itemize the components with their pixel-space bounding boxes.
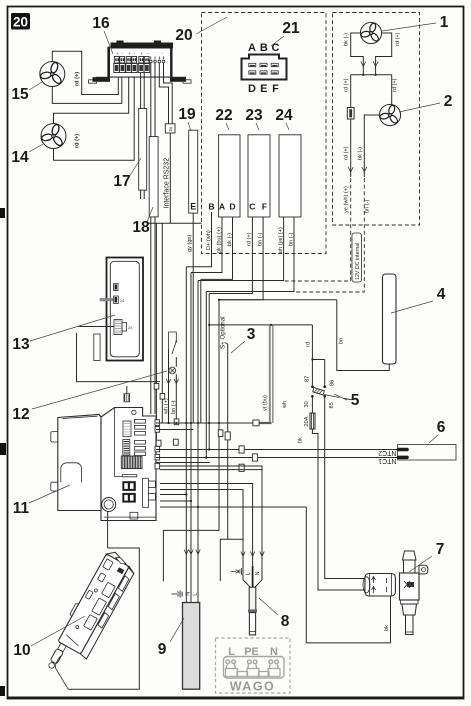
arrowhead bk lower <box>362 167 367 172</box>
unit11 dotted connector <box>123 421 131 437</box>
fan 2 <box>379 104 400 125</box>
enclosure corner lines <box>77 333 161 382</box>
power unit 11 panel body <box>101 408 156 521</box>
svg-text:20: 20 <box>13 15 28 30</box>
wire 85 down to valve feed A <box>325 396 365 578</box>
wire bk from fuse to valve feed B <box>312 429 365 590</box>
dashed box 12V fans (items 1,2) <box>333 13 420 226</box>
svg-text:24: 24 <box>120 299 124 303</box>
panel 13 connector c <box>114 320 132 335</box>
wire 12 bn down <box>175 357 177 423</box>
wire fan1 bk <box>351 33 364 75</box>
wire buzzer down <box>107 512 109 549</box>
wire to plug L <box>160 484 253 567</box>
svg-text:13: 13 <box>12 336 30 353</box>
svg-text:vt (bu): vt (bu) <box>263 395 269 411</box>
bus line H2 <box>156 429 193 431</box>
svg-text:rd (+): rd (+) <box>392 78 398 92</box>
svg-text:14: 14 <box>11 149 29 166</box>
heater 9 wires with arrows <box>184 550 200 603</box>
cable sheath 22 <box>208 135 240 217</box>
svg-text:ye (wh) (+): ye (wh) (+) <box>344 186 350 213</box>
dashed wire ye(wh)+ internal <box>284 178 351 281</box>
svg-text:wh (+): wh (+) <box>163 398 169 415</box>
svg-text:rd (+): rd (+) <box>395 32 401 46</box>
cable sheath 18 <box>149 137 158 217</box>
wire S+ optional <box>220 344 243 581</box>
wire mains N1 stub <box>160 500 191 502</box>
unit11 fingers mid <box>135 441 146 456</box>
svg-text:bk (-): bk (-) <box>344 33 350 46</box>
wire unit16 pin1 down <box>150 63 152 414</box>
wires into plug 8 arrows <box>241 552 264 557</box>
wire RS232 a <box>159 63 168 124</box>
wire fan15 red <box>52 51 118 94</box>
connector 21 <box>242 42 287 95</box>
bus line H5 <box>156 462 210 464</box>
svg-text:20A: 20A <box>304 416 310 426</box>
svg-text:22: 22 <box>215 107 232 124</box>
wire C rd(+) <box>209 212 252 294</box>
svg-text:+: + <box>141 51 144 56</box>
wire RS232 horizontal <box>148 222 202 224</box>
wire v bn24 down <box>205 292 207 458</box>
NTC sensor 6 <box>397 445 456 461</box>
wire to plug PE <box>160 490 243 567</box>
svg-text:NTC1: NTC1 <box>378 457 396 464</box>
svg-text:D: D <box>229 202 235 212</box>
wire fan2 bk <box>364 115 379 177</box>
svg-text:11: 11 <box>13 500 30 517</box>
wire 30 to fuse <box>311 396 313 413</box>
svg-text:rd (+): rd (+) <box>344 78 350 92</box>
unit11 bottom tab <box>130 512 138 519</box>
svg-text:9: 9 <box>158 641 167 658</box>
wire 24 bn <box>206 212 294 292</box>
wire item4 bn <box>337 300 390 371</box>
inline connector mid a <box>174 419 179 425</box>
dashed box around connector/harness (item 20) <box>202 13 327 254</box>
ground arrow item 8 <box>231 568 241 575</box>
svg-text:C: C <box>272 42 280 54</box>
wire fan14 black <box>54 76 135 161</box>
inline connector on S+ wire <box>225 432 230 440</box>
relay 5 pin 87 wire <box>311 360 313 386</box>
svg-text:bk: bk <box>384 625 390 631</box>
fan 14 <box>41 124 66 149</box>
wire v1 from rs232 area <box>155 223 157 449</box>
unit11 top connector <box>124 394 130 402</box>
svg-text:N: N <box>255 571 261 575</box>
wire rd with fuse <box>350 75 352 177</box>
bus line NTC1 <box>156 457 398 459</box>
svg-text:2x: 2x <box>168 126 173 132</box>
wire block3 a down <box>140 73 142 200</box>
svg-text:N: N <box>186 592 192 596</box>
svg-text:S+ Optional: S+ Optional <box>220 316 227 349</box>
arrowhead fan1 left <box>361 62 366 67</box>
wire vt(bu) gray horizontal <box>258 422 272 424</box>
svg-text:8: 8 <box>281 613 290 630</box>
wire RS232 down <box>169 133 171 223</box>
svg-text:bn (-): bn (-) <box>257 232 263 246</box>
WAGO terminal block <box>216 638 291 694</box>
svg-text:B: B <box>208 202 214 212</box>
inline connector on v1 <box>154 384 159 390</box>
wire mains L1 stub <box>160 494 186 496</box>
unit11 dark block b <box>122 493 136 503</box>
svg-text:3: 3 <box>247 326 256 343</box>
svg-text:D: D <box>248 83 256 95</box>
svg-text:pk (bu) (+): pk (bu) (+) <box>216 227 222 253</box>
cable sheath 17 <box>139 109 147 191</box>
cable sheath 19 with E <box>189 130 198 213</box>
wire v bk down <box>200 279 202 423</box>
cable sheath 23 <box>248 135 270 217</box>
inline connector on H1 <box>253 420 259 426</box>
heater element 9 <box>183 603 200 690</box>
wire v bn23 down + hook <box>163 300 219 582</box>
svg-text:21: 21 <box>282 20 300 37</box>
connector 2x <box>165 124 175 133</box>
svg-text:87: 87 <box>304 376 310 382</box>
wire bk return stub <box>160 506 306 508</box>
svg-text:7: 7 <box>436 541 445 558</box>
inline connector on NTC2 line <box>239 446 244 453</box>
svg-text:L: L <box>193 593 199 596</box>
wire fan14 red <box>54 76 129 124</box>
svg-text:wh: wh <box>282 401 288 409</box>
svg-text:F: F <box>272 83 279 95</box>
svg-text:WAGO: WAGO <box>230 680 276 694</box>
relay 5 contact <box>311 386 351 400</box>
gas valve 7 body <box>400 551 428 635</box>
svg-text:bn: bn <box>339 338 345 344</box>
svg-text:C: C <box>249 202 255 212</box>
svg-text:15: 15 <box>11 86 29 103</box>
svg-text:A: A <box>248 42 256 54</box>
svg-text:12: 12 <box>12 406 29 423</box>
svg-text:bn (-): bn (-) <box>171 400 177 414</box>
svg-text:85: 85 <box>329 402 335 408</box>
cable sheath 24 <box>279 135 301 217</box>
control unit 16 body <box>89 41 192 84</box>
svg-text:rd (+): rd (+) <box>247 232 253 246</box>
inline connector on plug N line <box>239 464 244 471</box>
svg-text:19: 19 <box>178 106 196 123</box>
svg-text:NTC2: NTC2 <box>378 449 396 456</box>
unit11 edge stubs <box>155 420 160 469</box>
wire 12 wh down <box>168 349 170 423</box>
wire relay feed <box>312 325 324 360</box>
svg-text:30: 30 <box>304 401 310 407</box>
relay 5 pin 86 wire <box>324 360 326 386</box>
unit11 striped block <box>123 440 130 456</box>
inline connector on v2 <box>160 394 165 400</box>
wire to plug N <box>160 466 262 566</box>
wire v wh24 down <box>197 281 199 603</box>
power unit 11 left box <box>51 415 101 511</box>
svg-text:16: 16 <box>92 15 110 32</box>
fuse 20A <box>310 413 315 429</box>
wire 24 wh(ye) <box>198 212 284 281</box>
fan 15 <box>40 62 65 87</box>
svg-text:+: + <box>116 51 119 56</box>
wire fan2 rd <box>391 75 393 105</box>
edge print marks <box>0 208 5 218</box>
wire into panel connector c <box>79 326 114 328</box>
svg-text:A: A <box>219 202 225 212</box>
svg-text:wh (ye) (+): wh (ye) (+) <box>278 227 284 255</box>
bus line H1 <box>156 422 272 424</box>
inline connector on NTC1 line <box>252 454 257 461</box>
svg-text:bk: bk <box>298 437 304 443</box>
arrowhead rd lower <box>348 167 353 172</box>
wire B D+(wh) <box>186 212 211 267</box>
unit16 block pin dots <box>115 58 148 61</box>
wire colour labels under sheaths <box>206 227 294 255</box>
junction bar fans <box>351 74 392 76</box>
lamp 12 <box>169 367 176 374</box>
unit11 right column connectors <box>143 478 156 507</box>
dashed wire bn- internal <box>294 178 364 292</box>
svg-text:10: 10 <box>13 642 30 659</box>
wire vt(bu) gray pair <box>269 325 271 423</box>
wire A pk(bu) <box>191 212 222 273</box>
svg-text:6: 6 <box>437 419 446 436</box>
wire F bn(-) <box>219 212 263 300</box>
unit16 round pins <box>148 51 165 63</box>
unit16 terminal block 2 <box>126 51 137 73</box>
switch 12 <box>172 341 176 354</box>
connector stubs at bus left <box>156 440 161 446</box>
svg-text:5: 5 <box>351 392 360 409</box>
svg-text:20: 20 <box>175 27 192 44</box>
gas valve 7 coil <box>363 574 395 597</box>
wire v rd down <box>208 294 210 450</box>
switch-lamp 12 bracket <box>169 332 177 349</box>
arrowhead 12 b <box>174 379 178 384</box>
bus line NTC2 <box>156 449 398 451</box>
wire v pk down <box>190 273 192 603</box>
arrowhead fan1 right <box>373 62 378 67</box>
svg-text:rd (+): rd (+) <box>75 72 81 86</box>
svg-text:rd (+): rd (+) <box>75 134 81 148</box>
svg-text:86: 86 <box>330 380 336 386</box>
unit11 buzzer <box>102 498 116 512</box>
svg-text:rd (+): rd (+) <box>344 146 350 160</box>
small blank rect <box>94 334 100 361</box>
panel 13 ribbon stub <box>100 298 114 301</box>
svg-text:bn (-): bn (-) <box>365 199 371 213</box>
svg-text:bn (-): bn (-) <box>288 232 294 246</box>
unit11 hatched block <box>121 456 142 469</box>
svg-text:bk (-): bk (-) <box>357 147 363 160</box>
sensor board 10 <box>42 548 138 682</box>
12V DC internal label box <box>352 233 362 282</box>
panel 13 connector a <box>114 284 119 291</box>
wire into unit11 top connector <box>126 386 128 394</box>
wire valve coil return <box>306 507 390 643</box>
svg-text:E: E <box>260 83 267 95</box>
fuse 12V <box>347 108 354 120</box>
wire D bk(-) <box>201 212 233 279</box>
wire v D+ down to mains plug area <box>185 267 187 602</box>
panel 13 connector b <box>114 296 124 304</box>
wire bn to item4 <box>219 299 337 301</box>
svg-text:Interface RS232: Interface RS232 <box>164 158 171 209</box>
figure number chip 20 <box>11 13 30 30</box>
inline connector mid b <box>218 430 223 437</box>
wire block3 b down <box>143 73 145 200</box>
control panel 13 <box>107 258 144 361</box>
fan 1 <box>360 22 381 43</box>
svg-text:bk (-): bk (-) <box>227 233 233 246</box>
svg-text:23: 23 <box>245 107 263 124</box>
svg-text:B: B <box>260 42 268 54</box>
wire v2 <box>161 223 163 423</box>
svg-text:E: E <box>190 202 196 212</box>
wire RS232 b <box>164 63 173 124</box>
mains plug 8 <box>243 566 262 635</box>
svg-text:gy (gn): gy (gn) <box>187 234 193 252</box>
wire companion line <box>160 469 262 471</box>
unit16 terminal block 1 <box>114 51 125 73</box>
svg-text:17: 17 <box>113 173 130 190</box>
ground arrow item 9 <box>172 590 183 597</box>
probe cable 10 <box>55 656 68 689</box>
wire E gy(gn) down <box>192 213 194 423</box>
unit11 dark block a <box>122 481 136 491</box>
arrowhead 12 a <box>166 379 170 384</box>
svg-text:2: 2 <box>444 93 453 110</box>
wire fan1 rd <box>376 33 392 75</box>
svg-text:rd: rd <box>306 342 312 347</box>
svg-text:D+ (wh): D+ (wh) <box>206 230 212 250</box>
igniter item 4 <box>383 274 397 364</box>
wire unit16 pin2 down <box>154 63 156 414</box>
svg-text:L: L <box>245 572 251 575</box>
svg-text:F: F <box>262 202 267 212</box>
svg-text:1: 1 <box>440 14 449 31</box>
wire fan15 black <box>52 76 122 104</box>
wire rd to relay <box>209 324 312 326</box>
frame around item 10 <box>68 548 139 689</box>
svg-text:24: 24 <box>275 107 293 124</box>
svg-text:+: + <box>128 51 131 56</box>
unit16 terminal block 3 <box>138 51 149 73</box>
svg-text:12V DC internal: 12V DC internal <box>355 243 361 280</box>
unit11 fingers top <box>135 420 146 436</box>
svg-text:24: 24 <box>128 326 132 330</box>
svg-text:4: 4 <box>437 286 446 303</box>
